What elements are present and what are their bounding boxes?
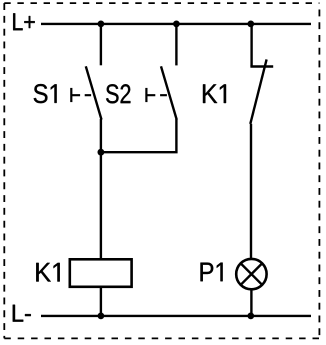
junction dot on L- rail at coil branch bbox=[98, 313, 105, 320]
relay contact K1 blade (NC) bbox=[250, 59, 266, 124]
pushbutton S1 actuator link (dashed) bbox=[71, 94, 91, 96]
wire: K1 contact top terminal bbox=[250, 24, 252, 67]
junction dot on L+ rail at K1 contact branch bbox=[247, 21, 254, 28]
label K1 (contact) bbox=[203, 84, 226, 103]
junction dot on L+ rail at S1 branch bbox=[98, 21, 105, 28]
relay contact K1 fixed bar (NC stop) bbox=[250, 65, 273, 67]
node L- label bbox=[13, 305, 31, 322]
wire: coil K1 to L- rail bbox=[100, 287, 102, 316]
wire: S1 bottom terminal down to merge node bbox=[100, 119, 102, 152]
pushbutton S2 contact blade (NO) bbox=[161, 66, 177, 119]
lamp P1 cross stroke 1 bbox=[241, 263, 262, 284]
wire: L+ top rail bbox=[41, 23, 311, 25]
label K1 (coil) bbox=[36, 263, 59, 282]
wire: L- bottom rail bbox=[41, 315, 311, 317]
junction dot on L- rail at lamp branch bbox=[247, 313, 254, 320]
frame: dashed border right edge bbox=[318, 10, 320, 339]
pushbutton S2 actuator cap bbox=[145, 88, 147, 102]
frame: dashed border bottom edge bbox=[4, 337, 319, 339]
relay coil K1 (rectangle) bbox=[70, 259, 132, 287]
wire: S1 top terminal bbox=[100, 24, 102, 65]
pushbutton S1 actuator cap bbox=[70, 88, 72, 102]
pushbutton S1 contact blade (NO) bbox=[86, 66, 102, 119]
pushbutton S2 actuator link (dashed) bbox=[146, 94, 167, 96]
frame: dashed border left edge bbox=[3, 3, 5, 338]
lamp P1 circle bbox=[236, 259, 266, 289]
node L+ label bbox=[13, 13, 35, 30]
wire: lamp P1 to L- rail bbox=[250, 289, 252, 316]
wire: S2 top terminal bbox=[175, 24, 177, 66]
label P1 bbox=[201, 263, 223, 282]
frame: dashed border top edge bbox=[4, 2, 319, 4]
wire: S2 bottom terminal with corner to merge node bbox=[101, 119, 176, 152]
wire: merge node down to coil K1 bbox=[100, 152, 102, 259]
junction dot on L+ rail at S2 branch bbox=[173, 21, 180, 28]
label S2 bbox=[106, 84, 130, 103]
wire: K1 contact to lamp P1 bbox=[250, 124, 252, 259]
lamp P1 cross stroke 2 bbox=[241, 263, 262, 284]
label S1 bbox=[34, 84, 57, 103]
junction dot at S1/S2 merge node bbox=[98, 149, 105, 156]
